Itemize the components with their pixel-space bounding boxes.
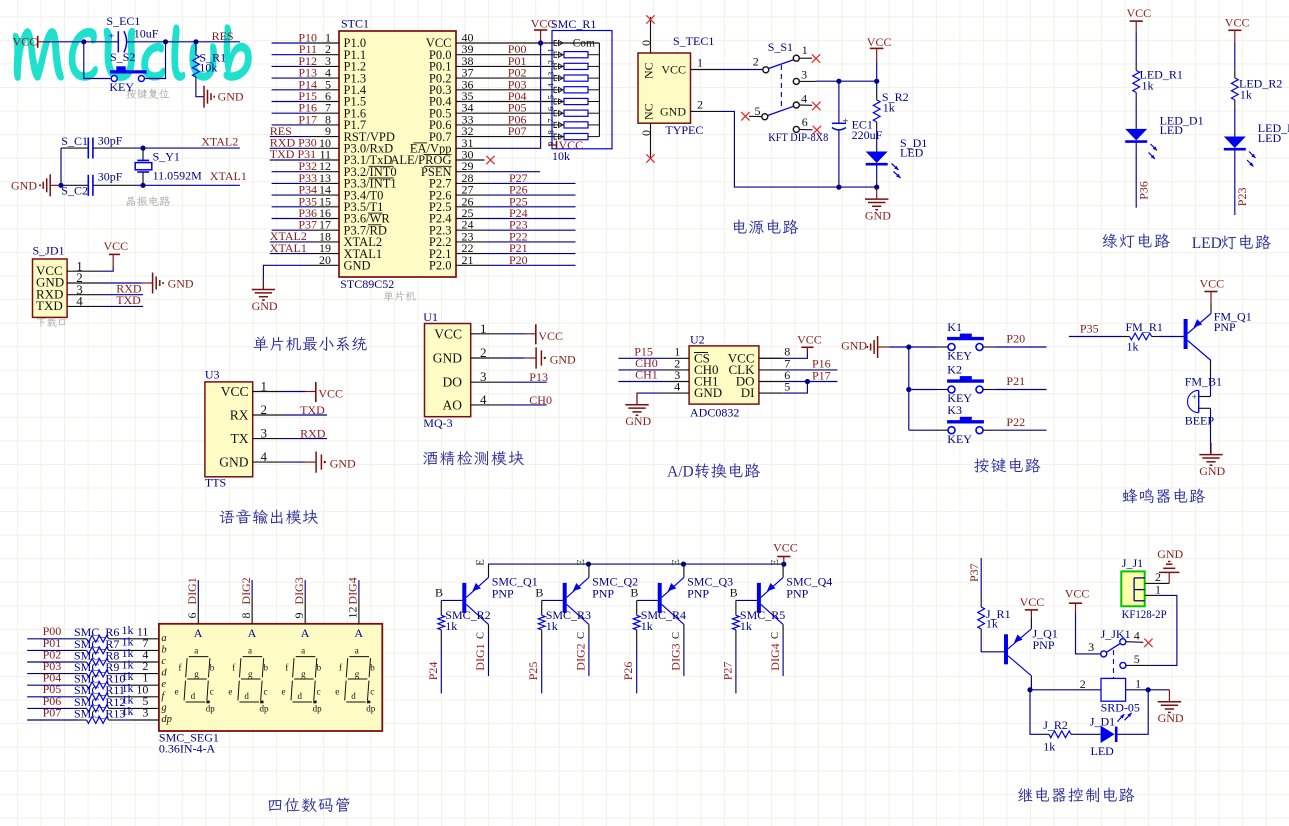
svg-text:E: E	[576, 559, 587, 565]
svg-text:P17: P17	[298, 112, 317, 126]
svg-text:TXD: TXD	[300, 403, 325, 417]
svg-text:B: B	[535, 585, 543, 599]
wire LED_R2 to LED_D2	[1234, 108, 1236, 137]
svg-text:VCC: VCC	[773, 541, 798, 555]
ground (U3)	[283, 461, 305, 463]
label 下载口	[37, 318, 66, 327]
power port VCC (U1)	[503, 333, 525, 335]
wire GND to key bus	[889, 346, 909, 348]
svg-text:E: E	[671, 559, 682, 565]
svg-text:b: b	[161, 644, 166, 655]
svg-text:K1: K1	[947, 320, 962, 334]
power port VCC (SMC_R1)	[548, 144, 557, 146]
svg-text:LED: LED	[900, 145, 924, 159]
wire node B to RES	[196, 41, 240, 43]
svg-text:P36: P36	[1137, 181, 1151, 200]
svg-text:g: g	[301, 669, 306, 679]
wire RES (pin9)	[270, 136, 311, 138]
power port VCC (J_Q1)	[1030, 618, 1032, 629]
U2 right pin stubs and numbers	[759, 357, 783, 359]
overline P3.7/RD	[368, 224, 382, 226]
svg-text:LED: LED	[1258, 131, 1282, 145]
power port VCC (STC1 pin40)	[485, 42, 553, 44]
svg-text:P21: P21	[1006, 374, 1025, 388]
SMC_SEG1 left pin stubs and numbers	[131, 638, 159, 640]
svg-text:4: 4	[801, 91, 807, 105]
resistor SMC_R4 1k	[636, 600, 638, 615]
svg-text:dp: dp	[260, 704, 270, 714]
overline P3.2/INT0	[369, 165, 394, 167]
wire to P25	[541, 644, 543, 693]
svg-text:VCC: VCC	[221, 384, 249, 399]
wire FM_R1 to base	[1160, 336, 1184, 338]
svg-text:f: f	[339, 663, 342, 673]
svg-text:DIG2: DIG2	[574, 643, 588, 670]
wire to P26	[636, 644, 638, 693]
svg-text:8: 8	[239, 613, 253, 619]
svg-text:VCC: VCC	[538, 329, 563, 343]
svg-text:1k: 1k	[445, 619, 457, 633]
svg-text:2: 2	[753, 54, 759, 68]
svg-text:e: e	[335, 686, 339, 696]
S_S1 pin 4	[793, 102, 799, 108]
capacitor S_C2 30pF	[87, 175, 89, 196]
label 晶振电路	[126, 196, 170, 206]
svg-text:GND: GND	[344, 259, 371, 273]
transistor SMC_Q3 PNP	[683, 564, 685, 577]
S_TEC1 top pin 0	[650, 17, 652, 53]
svg-text:b: b	[370, 663, 375, 673]
svg-text:P17: P17	[812, 368, 831, 382]
wire P37 to J_R1	[980, 558, 982, 599]
svg-text:b: b	[317, 663, 322, 673]
svg-text:E: E	[476, 559, 487, 565]
U2 left pin stubs and numbers	[665, 357, 689, 359]
power port VCC (U3)	[283, 391, 305, 393]
wire CH0 (U2)	[618, 369, 665, 371]
wire S_D1 to GND rail	[876, 165, 878, 187]
svg-text:g: g	[248, 669, 253, 679]
svg-text:TX: TX	[231, 431, 249, 446]
svg-text:10k: 10k	[552, 149, 570, 163]
svg-text:AO: AO	[443, 397, 463, 412]
svg-text:6: 6	[185, 613, 199, 619]
svg-text:3: 3	[1088, 640, 1094, 654]
wire TX to RXD	[283, 438, 327, 440]
ground (reset)	[203, 86, 205, 108]
svg-text:a: a	[301, 645, 305, 655]
svg-text:C: C	[476, 632, 487, 639]
svg-text:MQ-3: MQ-3	[423, 416, 452, 430]
svg-text:A: A	[194, 626, 203, 640]
resistor SMC_R2 1k	[440, 600, 442, 615]
wire to P27	[735, 644, 737, 693]
display SMC_SEG1 0.36IN-4-A	[159, 624, 382, 731]
svg-text:P07: P07	[43, 705, 62, 719]
STC1 left pin stubs and numbers	[311, 42, 340, 44]
wire XTAL1 (pin19)	[270, 253, 311, 255]
power port VCC (FM_Q1)	[1210, 303, 1212, 314]
node junction at S_R1 top	[193, 39, 198, 44]
wire RXD	[102, 294, 143, 296]
svg-text:+: +	[1192, 392, 1197, 402]
MCUclub logo	[13, 24, 252, 81]
svg-text:C: C	[770, 632, 781, 639]
label 蜂鸣器电路	[1122, 488, 1205, 503]
svg-text:3: 3	[480, 369, 487, 384]
svg-text:g: g	[355, 669, 360, 679]
SMC_Q3 collector wire to DIG3	[683, 624, 685, 635]
svg-text:DIG2: DIG2	[239, 577, 253, 604]
svg-text:c: c	[264, 686, 268, 696]
svg-text:CH1: CH1	[635, 368, 658, 382]
svg-text:0.36IN-4-A: 0.36IN-4-A	[159, 741, 216, 755]
capacitor S_EC1 10uF	[117, 31, 119, 52]
svg-text:2: 2	[261, 402, 268, 417]
wire RXD P30 (pin10)	[270, 147, 311, 149]
wire DI join DO	[783, 382, 807, 394]
svg-text:S_JD1: S_JD1	[33, 243, 65, 257]
svg-text:10uF: 10uF	[134, 27, 159, 41]
S_TEC1 bottom pin 0	[650, 123, 652, 158]
wire S_C1 left	[61, 147, 88, 149]
label 电源电路	[734, 219, 799, 234]
svg-text:a: a	[248, 645, 252, 655]
svg-text:FM_R1: FM_R1	[1126, 320, 1163, 334]
S_TEC1 pin 2	[691, 110, 721, 112]
svg-text:TXD: TXD	[36, 298, 63, 313]
J_J1 pin 1	[1145, 594, 1159, 596]
svg-text:SMC_R13: SMC_R13	[74, 706, 125, 720]
svg-text:U3: U3	[205, 368, 220, 382]
wire to P24	[440, 644, 442, 693]
svg-text:A: A	[354, 626, 363, 640]
svg-text:GND: GND	[218, 90, 244, 104]
STC1 right pin stubs and numbers	[456, 42, 485, 44]
relay actuator dashed link	[1113, 650, 1115, 678]
svg-text:RXD: RXD	[300, 427, 326, 441]
svg-text:TXD: TXD	[116, 293, 141, 307]
svg-text:KEY: KEY	[947, 349, 972, 363]
ground (power circuit)	[876, 187, 878, 199]
svg-text:4: 4	[1134, 629, 1140, 643]
svg-text:GND: GND	[330, 456, 356, 470]
svg-text:VCC: VCC	[318, 387, 343, 401]
svg-text:DI: DI	[741, 385, 755, 400]
resistor S_R1 10k	[195, 42, 197, 55]
svg-text:+: +	[842, 115, 848, 127]
svg-text:GND: GND	[219, 455, 248, 470]
svg-text:VCC: VCC	[797, 333, 822, 347]
svg-text:P13: P13	[529, 370, 548, 384]
svg-text:1k: 1k	[1240, 88, 1252, 102]
svg-text:+: +	[108, 31, 114, 43]
svg-text:1: 1	[480, 321, 487, 336]
svg-text:CH0: CH0	[529, 393, 552, 407]
svg-text:FM_B1: FM_B1	[1185, 374, 1222, 388]
resistor J_R2 1k	[1041, 733, 1049, 735]
svg-text:KFT DIP-8X8: KFT DIP-8X8	[768, 130, 828, 144]
svg-text:dp: dp	[313, 704, 323, 714]
overline CS	[694, 352, 708, 354]
svg-text:P20: P20	[509, 253, 528, 267]
resistor S_R2 1k	[876, 92, 878, 100]
svg-text:SMC_R1: SMC_R1	[551, 17, 596, 31]
svg-text:VCC: VCC	[661, 62, 686, 76]
svg-text:NC: NC	[642, 103, 656, 120]
svg-text:GND: GND	[1199, 464, 1225, 478]
svg-text:b: b	[210, 663, 215, 673]
svg-text:DO: DO	[443, 375, 463, 390]
svg-text:PNP: PNP	[492, 586, 514, 600]
svg-text:C: C	[671, 632, 682, 639]
svg-text:STC1: STC1	[341, 17, 369, 31]
SMC_Q1 collector wire to DIG1	[488, 624, 490, 635]
svg-text:0: 0	[639, 40, 653, 46]
relay arrows	[1117, 714, 1124, 721]
wire CH1 (U2)	[618, 381, 665, 383]
transistor SMC_Q2 PNP	[588, 564, 590, 577]
svg-text:K3: K3	[947, 403, 962, 417]
ground (relay coil)	[1168, 690, 1170, 702]
svg-text:XTAL1: XTAL1	[210, 169, 247, 183]
svg-text:A/D: A/D	[667, 463, 694, 480]
svg-text:ADC0832: ADC0832	[690, 405, 739, 419]
wire PSEN stub	[485, 171, 541, 173]
overline EA	[414, 142, 428, 144]
svg-text:3: 3	[261, 426, 268, 441]
svg-text:GND: GND	[865, 208, 891, 222]
svg-text:LED: LED	[1192, 235, 1222, 252]
svg-text:f: f	[179, 663, 182, 673]
label 按键复位	[126, 89, 169, 99]
svg-text:1k: 1k	[1043, 739, 1055, 753]
U1 pin stubs and numbers	[471, 333, 503, 335]
svg-text:VCC: VCC	[1127, 6, 1152, 20]
wire LED_R1 to LED_D1	[1135, 100, 1137, 128]
svg-text:21: 21	[462, 253, 474, 267]
svg-text:0: 0	[639, 130, 653, 136]
power port VCC (download)	[102, 267, 113, 272]
J_J1 pin 2	[1145, 582, 1170, 584]
ground (U1)	[503, 357, 525, 359]
wire LED loop left	[1030, 688, 1041, 735]
svg-text:P24: P24	[426, 662, 440, 681]
label 绿灯电路	[1103, 233, 1170, 248]
relay coil J_JK1 SRD-05	[1101, 678, 1126, 701]
svg-text:1: 1	[1135, 676, 1141, 690]
svg-text:6: 6	[802, 115, 808, 129]
svg-text:VCC: VCC	[1065, 586, 1090, 600]
svg-text:P25: P25	[526, 662, 540, 681]
svg-text:VCC: VCC	[1225, 15, 1250, 29]
ground (U2)	[637, 393, 665, 405]
wire GND rail (power)	[720, 111, 877, 187]
capacitor S_C1 30pF	[87, 138, 89, 159]
svg-text:dp: dp	[206, 704, 216, 714]
wire S_R2 to S_D1	[876, 130, 878, 152]
svg-text:30pF: 30pF	[98, 170, 123, 184]
wires P00-P07 to resistor network	[485, 54, 553, 56]
resistor J_R1 1k	[980, 599, 982, 607]
wire TXD	[102, 305, 143, 307]
svg-text:P07: P07	[508, 124, 527, 138]
wire buzzer to GND	[1210, 408, 1212, 453]
svg-text:g: g	[194, 669, 199, 679]
svg-text:d: d	[351, 691, 356, 701]
svg-text:VCC: VCC	[1200, 277, 1225, 291]
wire AO to CH0	[503, 404, 547, 406]
svg-text:10k: 10k	[199, 61, 217, 75]
svg-text:c: c	[317, 686, 321, 696]
label 继电器控制电路	[1018, 787, 1134, 802]
wire LED_D2 to P23	[1234, 150, 1236, 215]
wire GND (pin20)	[263, 265, 310, 289]
svg-text:e: e	[282, 686, 286, 696]
wire VCC to LED_R2	[1234, 42, 1236, 70]
svg-text:DIG4: DIG4	[346, 577, 360, 604]
svg-text:9: 9	[292, 613, 306, 619]
svg-text:PNP: PNP	[592, 586, 614, 600]
svg-text:a: a	[194, 645, 198, 655]
svg-text:BEEP: BEEP	[1185, 413, 1215, 427]
svg-text:VCC: VCC	[13, 35, 38, 49]
svg-text:P27: P27	[720, 662, 734, 681]
svg-text:11.0592M: 11.0592M	[153, 169, 203, 183]
svg-text:VCC: VCC	[434, 326, 462, 341]
wire DO to P17	[783, 381, 837, 383]
svg-text:1: 1	[697, 56, 703, 70]
S_S1 gang dashed link	[780, 65, 782, 108]
svg-text:4: 4	[76, 294, 83, 309]
svg-text:B: B	[630, 585, 638, 599]
svg-text:5: 5	[1134, 652, 1140, 666]
S_TEC1 pin 1	[691, 69, 721, 71]
label 酒精检测模块	[423, 451, 523, 466]
svg-text:1: 1	[1155, 582, 1161, 596]
wire LED_D1 to P36	[1135, 143, 1137, 208]
svg-text:U2: U2	[690, 333, 705, 347]
svg-text:VCC: VCC	[867, 35, 892, 49]
svg-text:a: a	[355, 645, 359, 655]
svg-text:U1: U1	[423, 310, 438, 324]
diode J_D1 LED	[1101, 726, 1115, 743]
svg-text:g: g	[161, 702, 166, 713]
svg-text:TTS: TTS	[205, 476, 226, 490]
wire VCC rail (drivers)	[488, 563, 784, 565]
SMC_R1 common pin Com	[552, 42, 599, 44]
svg-text:1k: 1k	[1142, 79, 1154, 93]
transistor J_Q1 PNP	[1004, 634, 1008, 664]
SMC_SEG1 digit glyphs	[184, 657, 210, 702]
svg-text:1k: 1k	[546, 619, 558, 633]
wire collector to buzzer	[1210, 361, 1212, 373]
node A junction	[81, 39, 86, 44]
svg-text:GND: GND	[11, 178, 37, 192]
diode LED_D1 LED	[1125, 129, 1147, 141]
svg-text:2: 2	[480, 345, 487, 360]
svg-text:1k: 1k	[641, 619, 653, 633]
svg-text:KF128-2P: KF128-2P	[1122, 607, 1167, 621]
overline P3.3/INT1	[369, 177, 394, 179]
svg-text:PNP: PNP	[1033, 638, 1055, 652]
svg-text:LED: LED	[1091, 744, 1115, 758]
svg-text:3: 3	[142, 706, 148, 720]
svg-text:d: d	[191, 691, 196, 701]
svg-text:20: 20	[319, 253, 331, 267]
svg-text:J_J1: J_J1	[1122, 556, 1143, 570]
svg-text:1k: 1k	[883, 101, 895, 115]
svg-text:dp: dp	[161, 714, 172, 725]
svg-text:SRD-05: SRD-05	[1101, 700, 1140, 714]
S_S1 pin 3	[793, 78, 799, 84]
svg-text:P35: P35	[1080, 321, 1099, 335]
svg-text:f: f	[232, 663, 235, 673]
svg-text:GND: GND	[252, 299, 278, 313]
svg-text:P2.0: P2.0	[429, 259, 452, 273]
wire EA/Vpp to VCC	[485, 43, 541, 148]
svg-text:3: 3	[801, 68, 807, 82]
wire pin3 to VCC	[1076, 613, 1101, 654]
svg-text:P22: P22	[1006, 415, 1025, 429]
diode LED_D2 LED	[1224, 137, 1246, 149]
node B junction	[163, 39, 168, 44]
svg-text:A: A	[248, 626, 257, 640]
pins S_JD1 1-4	[67, 270, 102, 272]
svg-text:Com: Com	[573, 37, 595, 49]
svg-text:b: b	[264, 663, 269, 673]
label 语音输出模块	[219, 509, 318, 524]
svg-text:f: f	[285, 663, 288, 673]
svg-text:LED: LED	[1160, 123, 1184, 137]
svg-text:P23: P23	[1235, 188, 1249, 207]
svg-text:A: A	[301, 626, 310, 640]
svg-text:P26: P26	[621, 662, 635, 681]
resistor FM_R1 1k	[1122, 336, 1130, 338]
resistor LED_R1 1k	[1135, 62, 1137, 70]
wire J_D1 to GND node	[1118, 690, 1149, 735]
svg-text:d: d	[244, 691, 249, 701]
svg-text:c: c	[370, 686, 374, 696]
wire cap to node B	[127, 41, 196, 43]
no-ERC cross pin30	[486, 156, 494, 164]
wire CLK to P16	[783, 369, 837, 371]
svg-text:GND: GND	[1158, 711, 1184, 725]
resistor SMC_R3 1k	[541, 600, 543, 615]
wire VCC to node A	[45, 41, 118, 43]
svg-text:XTAL1: XTAL1	[270, 241, 307, 255]
overline P3.6/WR	[368, 212, 383, 214]
svg-text:RX: RX	[230, 408, 249, 423]
svg-text:e: e	[175, 686, 179, 696]
node EA-VCC junction	[538, 40, 543, 45]
SMC_R1 resistor elements	[552, 54, 564, 56]
wire coil to GND node	[1126, 689, 1170, 691]
wire CS to P15	[618, 357, 665, 359]
svg-text:e: e	[228, 686, 232, 696]
crystal S_Y1 11.0592M	[140, 146, 145, 151]
transistor SMC_Q1 PNP	[488, 564, 490, 577]
svg-text:PNP: PNP	[687, 586, 709, 600]
svg-text:B: B	[730, 585, 738, 599]
svg-text:DIG1: DIG1	[473, 643, 487, 670]
svg-text:STC89C52: STC89C52	[340, 277, 394, 291]
label 单片机最小系统	[254, 336, 367, 351]
svg-text:GND: GND	[841, 339, 867, 353]
svg-text:PNP: PNP	[786, 586, 808, 600]
svg-text:S_C1: S_C1	[61, 134, 88, 148]
svg-text:KEY: KEY	[947, 432, 972, 446]
